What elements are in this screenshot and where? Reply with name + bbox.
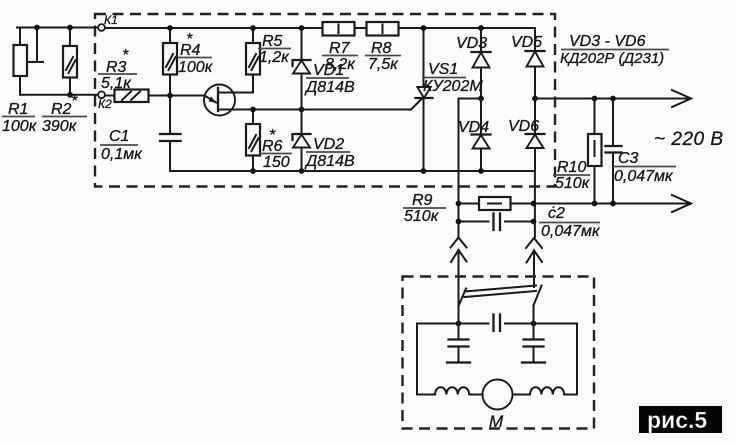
svg-text:C3: C3 <box>618 150 639 167</box>
resistor R5 <box>246 25 260 92</box>
svg-text:Д814В: Д814В <box>304 153 355 170</box>
wire mains bottom output <box>459 203 480 205</box>
label R4* 100к <box>178 31 214 76</box>
diode VD4 <box>472 99 491 174</box>
svg-text:0,047мк: 0,047мк <box>614 168 674 185</box>
wire bridge left AC stub <box>459 98 482 100</box>
brush left <box>456 289 466 327</box>
wire motor top row <box>417 323 489 325</box>
svg-text:R2: R2 <box>51 101 72 118</box>
wire top rail inside box <box>105 27 323 29</box>
svg-text:К1: К1 <box>104 13 118 27</box>
label R5 1,2к <box>258 33 291 66</box>
resistor R6 <box>246 107 260 174</box>
svg-text:КУ202М: КУ202М <box>423 78 483 95</box>
svg-text:*: * <box>186 31 193 48</box>
svg-text:100к: 100к <box>178 59 214 76</box>
svg-text:5,1к: 5,1к <box>101 75 132 92</box>
svg-text:КД202Р (Д231): КД202Р (Д231) <box>560 50 664 67</box>
wire bottom-left rail <box>20 94 99 96</box>
resistor R4 <box>163 25 177 98</box>
diode VD6 <box>526 99 545 172</box>
label R3* 5,1к <box>98 47 137 92</box>
resistor R8 <box>367 22 399 36</box>
svg-text:ċ2: ċ2 <box>548 205 565 222</box>
label R7 8,2к <box>322 40 358 73</box>
transistor VT (unijunction) <box>204 85 411 116</box>
wire right column to motor <box>534 171 536 237</box>
wire left AC vertical to motor <box>458 99 460 237</box>
label R2* 390к <box>42 93 87 135</box>
wire bottom rail <box>170 170 535 172</box>
inductor right winding <box>530 387 564 394</box>
label R9 510к <box>403 192 446 225</box>
label R6* 150 <box>259 127 292 171</box>
svg-text:*: * <box>269 127 276 144</box>
svg-text:100к: 100к <box>2 118 38 135</box>
svg-text:R7: R7 <box>329 40 351 57</box>
label VD3-VD6 КД202Р (Д231) <box>560 33 669 67</box>
svg-text:VS1: VS1 <box>428 61 458 78</box>
svg-text:Д814В: Д814В <box>304 79 355 96</box>
wire motor bottom left <box>417 394 435 396</box>
svg-text:R5: R5 <box>262 33 283 50</box>
connector arrows left <box>451 238 467 307</box>
brush right <box>531 286 542 327</box>
wire motor right side <box>576 324 578 395</box>
label VD2 Д814В <box>304 136 355 170</box>
label R1 100к <box>2 101 38 135</box>
arrow top output <box>672 90 691 107</box>
svg-text:VD5: VD5 <box>511 34 542 51</box>
label R8 7,5к <box>365 40 401 73</box>
capacitor C1 <box>160 96 181 172</box>
svg-text:*: * <box>71 93 78 110</box>
svg-text:VD6: VD6 <box>508 118 539 135</box>
svg-text:150: 150 <box>263 154 290 171</box>
commutator <box>465 286 537 298</box>
wire motor bottom right <box>564 394 577 396</box>
resistor R10 <box>588 96 602 207</box>
svg-text:VD3: VD3 <box>456 35 487 52</box>
svg-text:R9: R9 <box>412 192 433 209</box>
motor armature M <box>483 380 513 432</box>
arrow bottom output <box>672 195 691 212</box>
label C1 0,1мк <box>100 128 143 163</box>
svg-text:7,5к: 7,5к <box>368 56 399 73</box>
svg-text:М: М <box>489 412 504 431</box>
main dashed enclosure <box>95 14 555 187</box>
zener VD2 <box>293 110 311 174</box>
wire motor left side <box>416 324 418 395</box>
svg-text:R1: R1 <box>8 101 28 118</box>
svg-text:390к: 390к <box>42 118 78 135</box>
capacitor motor left to frame <box>447 324 470 363</box>
figure label рис.5 <box>639 406 722 433</box>
wire top-left rail <box>17 27 98 29</box>
capacitor C3 <box>606 96 622 207</box>
diode VD5 <box>526 28 545 101</box>
label VD1 Д814В <box>304 62 355 96</box>
svg-text:VD4: VD4 <box>458 119 489 136</box>
label VS1 КУ202М <box>422 61 483 95</box>
svg-text:*: * <box>122 47 129 64</box>
svg-text:510к: 510к <box>555 175 591 192</box>
label R10 510к <box>553 159 591 192</box>
terminal K2 <box>98 91 112 111</box>
capacitor motor right to frame <box>522 324 545 363</box>
resistor R3 <box>105 90 205 103</box>
resistor R2 <box>63 25 77 98</box>
svg-text:C1: C1 <box>109 128 129 145</box>
terminal K1 <box>98 13 118 31</box>
svg-text:0,1мк: 0,1мк <box>101 146 143 163</box>
wire to motor <box>469 394 482 396</box>
resistor R9 <box>456 197 537 210</box>
motor dashed enclosure <box>403 277 595 429</box>
svg-text:VD2: VD2 <box>313 136 344 153</box>
wire from motor <box>513 394 531 396</box>
svg-text:R10: R10 <box>557 159 586 176</box>
wire mains top output <box>535 98 689 100</box>
wire top rail right of R8 <box>399 27 536 29</box>
svg-text:~ 220 В: ~ 220 В <box>654 129 724 150</box>
svg-text:R8: R8 <box>371 40 392 57</box>
zener VD1 <box>293 25 311 112</box>
svg-text:0,047мк: 0,047мк <box>541 223 601 240</box>
label C3 0,047мк <box>613 150 676 185</box>
capacitor motor middle <box>494 315 501 332</box>
thyristor VS1 <box>411 25 433 174</box>
label C2 0,047мк <box>539 205 601 240</box>
svg-text:8,2к: 8,2к <box>325 56 356 73</box>
diode VD3 <box>472 25 491 101</box>
svg-text:1,2к: 1,2к <box>259 49 290 66</box>
wire between R7 and R8 <box>355 27 367 29</box>
connector arrows right <box>526 238 542 287</box>
svg-text:рис.5: рис.5 <box>647 407 707 433</box>
svg-text:510к: 510к <box>404 208 440 225</box>
capacitor C2 <box>456 214 537 231</box>
resistor R7 <box>323 22 355 36</box>
inductor left winding <box>435 387 469 394</box>
resistor R1 <box>14 25 44 95</box>
svg-text:К2: К2 <box>98 97 112 111</box>
svg-text:VD3 - VD6: VD3 - VD6 <box>569 33 646 50</box>
